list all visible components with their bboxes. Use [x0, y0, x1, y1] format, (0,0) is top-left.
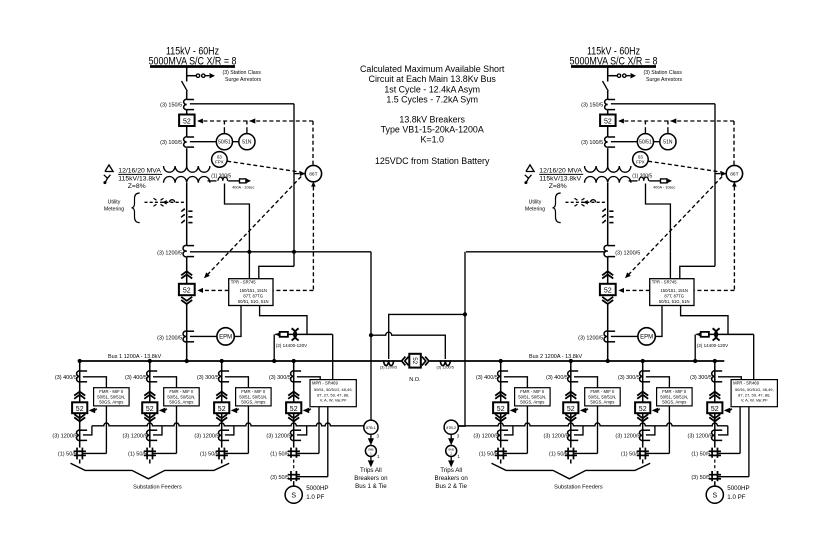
wire to motor	[714, 481, 716, 486]
tie breaker chevrons left	[402, 357, 406, 366]
svg-text:(3) 400/5: (3) 400/5	[55, 375, 77, 381]
trip wire 86T bottom (dashed)	[732, 181, 737, 186]
svg-text:52: 52	[76, 406, 84, 413]
lockout 86B-1	[365, 445, 376, 456]
wire relay link	[654, 141, 660, 143]
svg-text:TPR - SR745: TPR - SR745	[652, 280, 678, 285]
svg-text:FPX: FPX	[215, 159, 223, 164]
breaker 52 main upper 1	[179, 115, 195, 127]
feeder breaker 52 drawout chevrons	[637, 392, 648, 396]
wire to motor	[293, 481, 295, 486]
wire 87B-1 CT common line	[92, 423, 364, 426]
trip wire dashed riser to 86T top	[733, 121, 735, 165]
svg-text:87B-1: 87B-1	[366, 426, 376, 430]
feeder tail	[642, 459, 644, 463]
CT (3) 400/5 feeder	[77, 371, 80, 382]
svg-text:(1) 50/5: (1) 50/5	[200, 451, 219, 457]
CT (1) 50/5 ground sensor	[144, 450, 156, 452]
feeder tail	[79, 459, 81, 463]
lockout relay 86T 1	[305, 165, 321, 181]
CT (1) 50/5 ground sensor	[216, 450, 228, 452]
relay box FMR - MIF II	[164, 388, 200, 406]
wire bus PT to MPR	[332, 334, 334, 379]
wire bus PT to bus	[273, 334, 275, 361]
trip wire FMR to 52 (dashed)	[510, 408, 517, 414]
svg-text:V, A, W, Var,PF: V, A, W, Var,PF	[320, 398, 347, 403]
lockout 86B-2	[446, 445, 457, 456]
relay 50/51 1	[216, 134, 232, 150]
trip wire 63FPX to 86T (dashed)	[227, 161, 301, 172]
wire motor CT 50/5 to MPR lead 2	[297, 476, 328, 478]
disconnect switch	[603, 81, 609, 91]
relay 63 FPX 2	[633, 152, 649, 168]
svg-text:(1) 50/5: (1) 50/5	[479, 451, 498, 457]
svg-text:87T, 87TG: 87T, 87TG	[243, 294, 263, 299]
svg-text:TPR - SR745: TPR - SR745	[231, 280, 257, 285]
svg-text:Surge Arrestors: Surge Arrestors	[225, 77, 261, 83]
svg-text:150/151, 151N: 150/151, 151N	[660, 288, 687, 293]
svg-text:Z=8%: Z=8%	[128, 183, 146, 190]
junction bus 2 feeder tap	[499, 359, 503, 363]
meter EPM 2	[638, 328, 655, 345]
wire tie CT1 to 87B-2	[389, 314, 465, 359]
motor feeder dashed link	[293, 457, 295, 459]
fuse 400A 2	[661, 179, 667, 183]
junction bus 2 feeder tap	[569, 359, 573, 363]
wire motor CT 50/5 to MPR lead 2	[718, 476, 749, 478]
feeder breaker 52 drawout chevrons	[216, 392, 227, 396]
trip wire FMR to 52 (dashed)	[231, 408, 238, 414]
svg-text:(1) 200/5: (1) 200/5	[632, 174, 652, 180]
wire CT 1200/5 differential to 87B-2	[466, 251, 605, 253]
wye ground symbol	[104, 175, 111, 178]
relay box MPR - SR469	[310, 380, 356, 407]
breaker 52 main upper 2	[600, 115, 616, 127]
svg-text:Type VB1-15-20kA-1200A: Type VB1-15-20kA-1200A	[381, 125, 484, 135]
svg-text:FMR - MIF II: FMR - MIF II	[241, 389, 265, 394]
svg-text:(3) 150/5: (3) 150/5	[581, 102, 603, 108]
CT (1) 50/5 motor ground sensor	[288, 450, 300, 452]
svg-text:400A - 10sec: 400A - 10sec	[653, 185, 675, 189]
svg-text:(3) 1200/5: (3) 1200/5	[380, 366, 397, 370]
transformer T2 primary winding	[585, 166, 631, 172]
wire relay link	[233, 141, 239, 143]
wire CT to breaker	[186, 110, 188, 115]
feeder breaker 52 drawout chevrons	[74, 392, 85, 396]
wire motor ground CT to MPR lead 1	[718, 452, 740, 454]
svg-text:50/51, 50/51N,: 50/51, 50/51N,	[239, 394, 267, 399]
wire 86T input	[294, 173, 300, 175]
feeder breaker 52	[635, 402, 650, 413]
breaker 52 main lower 2 drawout chevrons	[602, 271, 613, 275]
junction bus 1 feeder tap	[148, 359, 152, 363]
svg-text:50GS, Amps: 50GS, Amps	[520, 400, 544, 405]
svg-text:(3) 1200/5: (3) 1200/5	[157, 250, 182, 256]
wire transformer to CT 1200/5	[607, 183, 609, 245]
arrow 86B-2 trip	[450, 456, 452, 461]
wire 87B-2 riser	[458, 252, 465, 426]
feeder tail	[149, 459, 151, 463]
feeder conductor	[79, 361, 81, 448]
wire CT 100/5 to relays	[611, 141, 637, 143]
wire CT to breaker	[607, 110, 609, 115]
wire ground CT to FMR	[646, 452, 670, 454]
CT (3) 300/5 motor feeder	[291, 371, 294, 382]
svg-text:(3) 1200/5: (3) 1200/5	[157, 335, 182, 341]
wire ground CT to FMR	[504, 452, 528, 454]
wire breaker to bus	[186, 304, 188, 361]
relay box MPR - SR469	[731, 380, 777, 407]
svg-text:(1) 50/5: (1) 50/5	[58, 451, 77, 457]
tie breaker chevrons right	[422, 357, 426, 366]
relay box FMR - MIF II	[657, 388, 693, 406]
wire TPR lead elbow	[680, 266, 715, 278]
utility metering PT (dashed)	[188, 210, 192, 212]
svg-text:Substation Feeders: Substation Feeders	[554, 485, 603, 491]
svg-text:86T: 86T	[309, 172, 317, 178]
CT (3) 300/5 feeder	[219, 371, 222, 382]
wire switch to CT	[186, 91, 188, 99]
feeder breaker 52	[72, 402, 87, 413]
svg-text:V, A, W, Var,PF: V, A, W, Var,PF	[741, 398, 768, 403]
svg-text:50GS, Amps: 50GS, Amps	[241, 400, 265, 405]
svg-text:FMR - MIF II: FMR - MIF II	[520, 389, 544, 394]
trip wire 63FPX to 86T (dashed)	[648, 161, 722, 172]
relay box FMR - MIF II	[94, 388, 130, 406]
svg-text:(3) 400/5: (3) 400/5	[476, 375, 498, 381]
wire motor ground CT to MPR lead 1	[297, 452, 319, 454]
CT (3) 400/5 feeder	[498, 371, 501, 382]
motor breaker 52 drawout chevrons	[288, 392, 299, 396]
svg-text:Utility: Utility	[108, 199, 121, 205]
wire feeder CT to 87B line	[574, 426, 583, 435]
trip wire 86T to breaker 52 lower (dashed diagonal)	[206, 177, 301, 277]
delta symbol	[526, 165, 534, 172]
svg-text:Metering: Metering	[104, 206, 124, 212]
CT (3) 1200/5 motor differential	[712, 430, 715, 441]
svg-text:EPM: EPM	[219, 335, 232, 341]
CT (3) 400/5 feeder	[147, 371, 150, 382]
wire CT to breaker lower	[186, 257, 188, 284]
feeder conductor	[500, 361, 502, 448]
trip wire FMR to 52 (dashed)	[89, 408, 96, 414]
svg-text:Trips All: Trips All	[440, 467, 462, 474]
feeder breaker 52 drawout chevrons	[565, 392, 576, 396]
svg-text:Bus 1 1200A - 13.8kV: Bus 1 1200A - 13.8kV	[108, 354, 162, 360]
svg-text:(3) 400/5: (3) 400/5	[546, 375, 568, 381]
CT (1) 50/5 ground sensor	[565, 450, 577, 452]
svg-text:52: 52	[183, 118, 191, 125]
wire TPR to EPM	[655, 306, 662, 337]
wire feeder CT to 87B line	[646, 426, 655, 435]
svg-text:MPR - SR469: MPR - SR469	[312, 381, 339, 386]
wire 87B-1 to 86B-1	[370, 434, 372, 439]
feeder tail	[570, 459, 572, 463]
wire transformer neutral to TPR	[646, 184, 671, 252]
CT (3) 100/5 2	[605, 137, 608, 147]
surge arrestor tap	[187, 75, 197, 77]
svg-text:S: S	[712, 492, 717, 499]
svg-text:FMR - MIF II: FMR - MIF II	[590, 389, 614, 394]
svg-text:Calculated Maximum Available S: Calculated Maximum Available Short	[360, 64, 505, 74]
junction 87B-1 riser	[369, 333, 373, 337]
svg-text:(3) 1200/5: (3) 1200/5	[437, 366, 454, 370]
utility metering CT (dashed)	[154, 198, 157, 200]
junction bus 1 feeder tap	[220, 359, 224, 363]
svg-text:12/16/20 MVA: 12/16/20 MVA	[539, 167, 582, 174]
wire TPR to EPM	[234, 306, 241, 337]
svg-text:(3) 1200/5: (3) 1200/5	[473, 433, 498, 439]
svg-text:Bus 2 & Tie: Bus 2 & Tie	[435, 483, 467, 490]
CT (3) 1200/5 main upper 2	[604, 245, 608, 257]
relay box FMR - MIF II	[585, 388, 621, 406]
svg-text:1.0 PF: 1.0 PF	[306, 494, 324, 501]
svg-text:50/51, 50/51N,: 50/51, 50/51N,	[588, 394, 616, 399]
wire TPR lead	[248, 252, 250, 279]
motor feeder conductor	[293, 361, 295, 448]
svg-text:(3) 100/5: (3) 100/5	[581, 140, 603, 146]
trip wire 86T to breaker 52 upper (dashed)	[199, 120, 314, 122]
wire feeder CT to relay box	[225, 377, 249, 388]
svg-text:(3) 1200/5: (3) 1200/5	[52, 433, 77, 439]
trip wire FMR to 52 (dashed)	[580, 408, 587, 414]
CT (3) 400/5 feeder	[568, 371, 571, 382]
utility metering meter arrow	[583, 200, 588, 204]
CT (3) 1200/5 metering 2	[604, 331, 608, 342]
svg-text:52: 52	[218, 406, 226, 413]
svg-text:Bus 2 1200A - 13.8kV: Bus 2 1200A - 13.8kV	[529, 354, 583, 360]
transformer T1 primary winding	[164, 166, 210, 172]
svg-text:K=1.0: K=1.0	[420, 134, 444, 144]
CT (3) 1200/5 feeder differential	[498, 430, 501, 441]
CT (3) 1200/5 feeder differential	[568, 430, 571, 441]
bus 2 13.8kV	[430, 360, 725, 362]
breaker 52 main lower 1	[179, 284, 195, 295]
feeder breaker 52 drawout chevrons	[495, 392, 506, 396]
fuse 400A 1	[240, 179, 246, 183]
motor feeder dashed link	[714, 457, 716, 459]
svg-text:FMR - MIF II: FMR - MIF II	[99, 389, 123, 394]
svg-text:Breakers on: Breakers on	[435, 475, 469, 482]
svg-text:(3) 300/5: (3) 300/5	[690, 375, 712, 381]
junction bus 1 feeder tap	[78, 359, 82, 363]
svg-text:50/51, 50/51N,: 50/51, 50/51N,	[660, 394, 688, 399]
breaker 52 main lower 1 drawout chevrons	[181, 271, 192, 275]
motor S 5000HP	[285, 486, 302, 503]
feeder breaker 52	[493, 402, 508, 413]
wire breaker to CT 100/5	[186, 126, 188, 137]
svg-text:(2) 14400-120V: (2) 14400-120V	[276, 343, 307, 348]
svg-text:(3) 50/5: (3) 50/5	[691, 475, 710, 481]
feeder breaker 52	[142, 402, 157, 413]
svg-text:150/151, 151N: 150/151, 151N	[239, 288, 266, 293]
wire breaker to CT 100/5	[607, 126, 609, 137]
wire TPR to PT fuse	[260, 306, 307, 335]
svg-text:(3) 400/5: (3) 400/5	[125, 375, 147, 381]
svg-text:(3) Station Class: (3) Station Class	[223, 70, 262, 76]
CT (1) 50/5 ground sensor	[495, 450, 507, 452]
svg-text:5000MVA S/C X/R = 8: 5000MVA S/C X/R = 8	[570, 55, 658, 67]
svg-text:Z=8%: Z=8%	[549, 183, 567, 190]
CT (3) 150/5 main 2	[605, 99, 608, 109]
svg-text:(3) 100/5: (3) 100/5	[160, 140, 182, 146]
svg-text:52: 52	[567, 406, 575, 413]
svg-text:50GS, Amps: 50GS, Amps	[662, 400, 686, 405]
svg-text:400A - 10sec: 400A - 10sec	[232, 185, 254, 189]
wire TPR lead elbow	[259, 266, 294, 278]
svg-text:50GS, Amps: 50GS, Amps	[169, 400, 193, 405]
relay 63 FPX 1	[212, 152, 228, 168]
junction bus 2 PT tap	[693, 359, 697, 363]
wire CT 100/5 to relays	[190, 141, 216, 143]
wire feeder CT to 87B line	[83, 426, 92, 435]
CT (3) 1200/5 feeder differential	[147, 430, 150, 441]
svg-text:Trips All: Trips All	[360, 467, 382, 474]
CT (3) 100/5 1	[184, 137, 187, 147]
motor S 5000HP	[706, 486, 723, 503]
trip wire 86T to breaker 52 upper (dashed)	[620, 120, 735, 122]
surge arrestor tap	[608, 75, 618, 77]
svg-text:(2) 14400-120V: (2) 14400-120V	[697, 343, 728, 348]
svg-text:(3) 1200/5: (3) 1200/5	[544, 433, 569, 439]
relay 87B-2	[444, 420, 458, 434]
svg-text:(1) 50/5: (1) 50/5	[128, 451, 147, 457]
svg-text:5000HP: 5000HP	[727, 485, 749, 492]
svg-text:12/16/20 MVA: 12/16/20 MVA	[118, 167, 161, 174]
source bus 2 115kV	[571, 65, 656, 68]
svg-text:50/51, 51G, 51N: 50/51, 51G, 51N	[238, 299, 269, 304]
wire bus PT to MPR	[753, 334, 755, 379]
CT (3) 300/5 motor feeder	[712, 371, 715, 382]
svg-text:N.O.: N.O.	[409, 377, 421, 383]
trip wire MPR to 52 (dashed)	[303, 408, 310, 414]
breaker 52 main lower 2	[600, 284, 616, 295]
feeder conductor	[221, 361, 223, 448]
CT (3) 1200/5 main upper 1	[183, 245, 187, 257]
feeder tail	[500, 459, 502, 463]
trip wire 86T bottom (dashed)	[311, 181, 316, 186]
svg-text:51N: 51N	[242, 140, 252, 146]
svg-text:1.0 PF: 1.0 PF	[727, 494, 745, 501]
CT (3) 50/5 motor	[709, 474, 721, 476]
svg-text:52: 52	[290, 406, 298, 413]
svg-text:5000HP: 5000HP	[306, 485, 328, 492]
wire tie CT2 to 87B-1	[371, 332, 445, 359]
svg-text:125VDC from Station Battery: 125VDC from Station Battery	[375, 156, 490, 166]
arrow 86B-1 trip	[370, 456, 372, 461]
wire 87B-2 CT common line	[458, 423, 728, 426]
svg-text:52: 52	[411, 357, 418, 364]
svg-text:115kV/13.8kV: 115kV/13.8kV	[118, 176, 160, 183]
feeder breaker 52	[214, 402, 229, 413]
CT (3) 1200/5 motor differential	[291, 430, 294, 441]
svg-text:87T, 87TG: 87T, 87TG	[664, 294, 684, 299]
svg-text:5000MVA S/C X/R = 8: 5000MVA S/C X/R = 8	[149, 55, 237, 67]
tie breaker 52 N.O.	[409, 354, 421, 368]
CT (3) 1200/5 metering 1	[183, 331, 187, 342]
trip wire TPR to 52 (dashed)	[199, 289, 229, 291]
utility metering meter arrow	[162, 200, 167, 204]
feeder conductor	[642, 361, 644, 448]
svg-text:(3) 1200/5: (3) 1200/5	[266, 433, 291, 439]
wire CT to breaker lower	[607, 257, 609, 284]
relay 51N 2	[660, 134, 676, 150]
svg-text:(1) 50/5: (1) 50/5	[691, 451, 710, 457]
svg-text:Circuit at Each Main 13.8Kv Bu: Circuit at Each Main 13.8Kv Bus	[369, 74, 497, 84]
junction bus 2 main	[606, 359, 610, 363]
wire motor CT to 87B line	[297, 426, 307, 435]
wire into transformer	[607, 148, 609, 166]
svg-text:Surge Arrestors: Surge Arrestors	[646, 77, 682, 83]
CT (3) 1200/5 tie bus 2 side	[440, 360, 450, 365]
disconnect switch	[182, 81, 188, 91]
relay box FMR - MIF II	[515, 388, 551, 406]
transformer T2 secondary winding	[585, 177, 631, 183]
relay box TPR - SR745 1	[229, 279, 273, 306]
wire feeder CT to 87B line	[504, 426, 513, 435]
svg-text:(3) 150/5: (3) 150/5	[160, 102, 182, 108]
junction 87B-2 riser	[463, 312, 467, 316]
svg-text:50/51: 50/51	[639, 140, 652, 146]
svg-text:EPM: EPM	[640, 335, 653, 341]
motor breaker 52 drawout chevrons	[709, 392, 720, 396]
wire switch to CT	[607, 91, 609, 99]
brace substation feeders bus 1	[71, 463, 230, 479]
relay box TPR - SR745 2	[650, 279, 694, 306]
svg-text:50/51, 50/51N,: 50/51, 50/51N,	[97, 394, 125, 399]
trip wire dashed riser to 86T top	[312, 121, 314, 165]
CT (3) 1200/5 feeder differential	[77, 430, 80, 441]
transformer T1 secondary winding	[164, 177, 210, 183]
wire TPR to PT fuse	[681, 306, 728, 335]
wire breaker to bus	[607, 304, 609, 361]
trip wire FMR to 52 (dashed)	[652, 408, 659, 414]
wire 87B-2 to 86B-2	[450, 434, 452, 439]
CT (1) 50/5 ground sensor	[637, 450, 649, 452]
utility metering PT (dashed)	[609, 210, 613, 212]
svg-text:(3) 50/5: (3) 50/5	[270, 475, 289, 481]
motor breaker 52	[286, 402, 301, 413]
feeder conductor	[149, 361, 151, 448]
svg-text:52: 52	[146, 406, 154, 413]
wire motor CT to 87B line	[718, 426, 728, 435]
svg-text:Bus 1 & Tie: Bus 1 & Tie	[355, 483, 387, 490]
motor breaker 52	[707, 402, 722, 413]
trip wire 86T to breaker 52 lower (dashed diagonal)	[627, 177, 722, 277]
wire 87B-1 riser	[370, 252, 372, 420]
svg-text:(1) 50/5: (1) 50/5	[621, 451, 640, 457]
svg-text:52: 52	[711, 406, 719, 413]
wire transformer neutral to TPR	[225, 184, 250, 252]
wire source drop	[607, 67, 609, 82]
relay box FMR - MIF II	[236, 388, 272, 406]
svg-text:(1) 50/5: (1) 50/5	[270, 451, 289, 457]
svg-text:52: 52	[604, 118, 612, 125]
svg-text:50/51, 50/51N,: 50/51, 50/51N,	[518, 394, 546, 399]
svg-text:86T: 86T	[730, 172, 738, 178]
wire ground CT to FMR	[574, 452, 598, 454]
CT (1) 200/5 neutral 2	[629, 180, 638, 182]
wire feeder CT to relay box	[504, 377, 528, 388]
bus 1 13.8kV	[80, 360, 401, 362]
svg-text:52: 52	[183, 287, 191, 294]
svg-text:(3) 1200/5: (3) 1200/5	[578, 335, 603, 341]
svg-text:52: 52	[497, 406, 505, 413]
svg-text:MPR - SR469: MPR - SR469	[733, 381, 760, 386]
svg-text:1st Cycle - 12.4kA Asym: 1st Cycle - 12.4kA Asym	[384, 84, 480, 94]
wire feeder CT to relay box	[574, 377, 598, 388]
svg-text:115kV/13.8kV: 115kV/13.8kV	[539, 176, 581, 183]
